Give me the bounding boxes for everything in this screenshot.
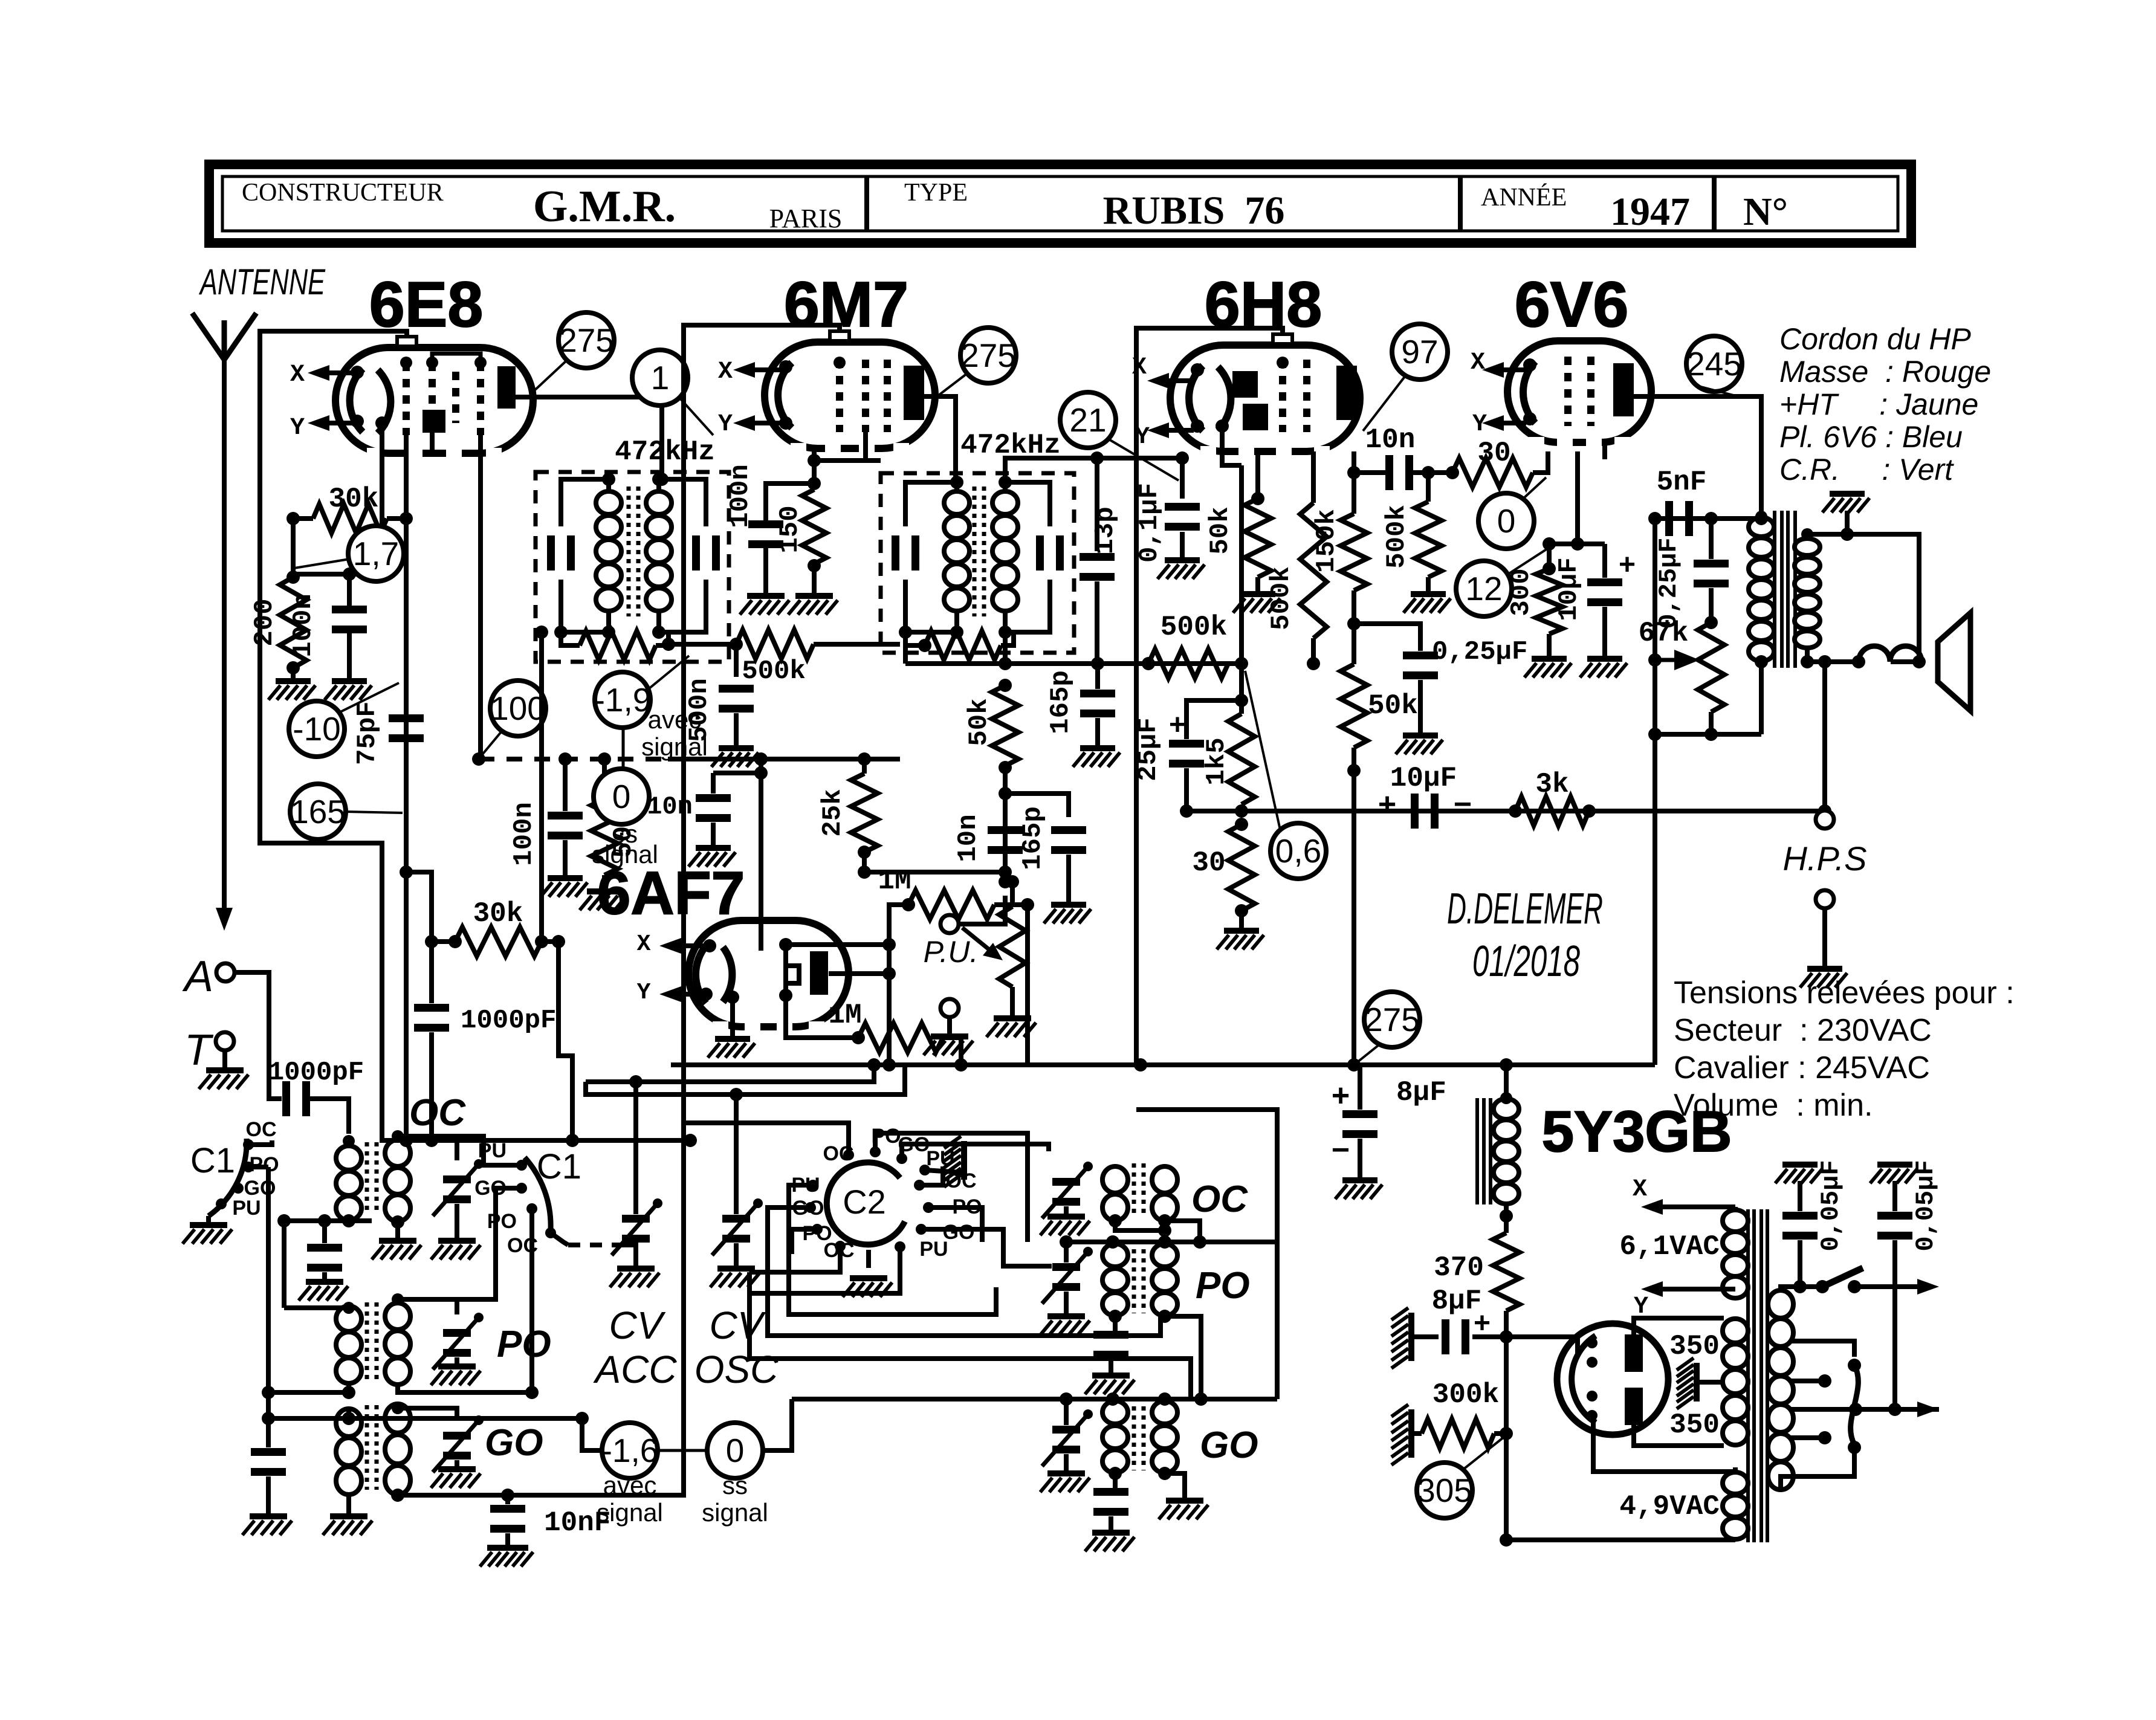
6M7 grid1 dot xyxy=(834,357,846,369)
junction osc grid xyxy=(425,935,438,948)
svg-text:PARIS: PARIS xyxy=(769,204,843,233)
ant PO core xyxy=(365,1302,369,1381)
resistor 300k xyxy=(1422,1419,1494,1448)
6M7 pin dot a xyxy=(779,360,792,373)
wire -1,6 to 0 xyxy=(657,1449,708,1452)
svg-text:5Y3GB: 5Y3GB xyxy=(1542,1099,1732,1164)
6E8 Y arrow xyxy=(317,421,358,425)
wire 10nF gnd xyxy=(505,1533,510,1545)
svg-text:X: X xyxy=(290,361,305,389)
wire 6E8 X to cathode xyxy=(357,372,358,373)
junction bus A / IF2 xyxy=(999,657,1012,670)
svg-text:300: 300 xyxy=(1506,568,1536,616)
junction 500k-r xyxy=(1422,466,1435,479)
junction 6AF7 plate xyxy=(882,967,896,980)
C1R contact GO xyxy=(516,1183,527,1194)
mains switch blade xyxy=(1822,1268,1863,1287)
junction B+ OPT xyxy=(1648,728,1662,741)
capacitor 100n (6E8 cathode) xyxy=(332,606,367,613)
junction 10nF xyxy=(501,1489,514,1502)
C1L contact GO xyxy=(233,1183,244,1194)
wire 0,25uF top xyxy=(1354,624,1420,651)
C2 ground inner xyxy=(866,1250,871,1268)
svg-text:PO: PO xyxy=(487,1210,517,1233)
6AF7 X arrow xyxy=(669,943,707,948)
junction OC bus a xyxy=(277,1214,291,1227)
svg-text:Secteur : 230VAC: Secteur : 230VAC xyxy=(1674,1013,1932,1048)
wire 6M7 plate to IF2 xyxy=(924,396,956,482)
junction 1M-l rail xyxy=(954,1058,968,1072)
junction 1000pF OC line xyxy=(425,1134,438,1147)
voltage circle 305 xyxy=(1417,1463,1472,1518)
junction 25k bus xyxy=(858,752,871,766)
svg-text:97: 97 xyxy=(1401,333,1438,370)
svg-text:signal: signal xyxy=(641,732,708,761)
wire PO trim gnd xyxy=(455,1357,459,1363)
wire 200 top xyxy=(291,519,296,577)
C1 right wafer arc xyxy=(525,1157,551,1229)
title divider No xyxy=(1712,176,1717,231)
wire osc PO trim top xyxy=(1064,1242,1069,1263)
junction gnd tap xyxy=(1840,528,1854,541)
svg-text:-1,6: -1,6 xyxy=(601,1432,659,1469)
wire primary bottom xyxy=(1781,1447,1854,1490)
svg-text:21: 21 xyxy=(1069,401,1106,439)
svg-text:500k: 500k xyxy=(1266,566,1297,630)
svg-text:+HT : Jaune: +HT : Jaune xyxy=(1779,387,1978,421)
svg-text:3k: 3k xyxy=(1535,769,1568,800)
tube 6M7 envelope xyxy=(765,342,935,448)
wire 5Y3 plate top xyxy=(1634,1318,1724,1334)
voltage circle 1,7 (cathode) xyxy=(348,526,404,581)
junction CV OSC line xyxy=(730,1088,743,1101)
wire 0,25uF-o bottom xyxy=(1709,588,1714,622)
junction 50k det top xyxy=(999,679,1012,692)
wire A to 1000pF xyxy=(235,972,282,1099)
capacitor 75pF xyxy=(389,714,424,722)
6E8 X arrow xyxy=(317,370,358,375)
wire cath node 6V6 xyxy=(1549,542,1605,546)
wire 300 gnd xyxy=(1547,634,1552,656)
junction OC sec top xyxy=(392,1130,404,1142)
wire 50k-6h8 gnd xyxy=(1255,577,1260,591)
6H8 pin dot b xyxy=(1191,419,1204,433)
wire bus A (detector) xyxy=(905,661,1241,666)
capacitor 100n (6M7 cathode) xyxy=(748,520,783,528)
6H8 plate xyxy=(1336,366,1357,420)
junction 50k AVC top xyxy=(598,792,611,806)
selector contact 3 xyxy=(1849,1403,1862,1416)
wire PO prim bottom xyxy=(268,1384,349,1392)
ground OPT secondary xyxy=(1830,491,1865,497)
antenna down lead wire xyxy=(222,360,227,921)
wire C2 route PO-left xyxy=(792,1229,817,1254)
junction 500k busA right xyxy=(1235,657,1248,670)
svg-text:D.DELEMER: D.DELEMER xyxy=(1447,885,1603,933)
terminal HPS 2 xyxy=(1816,890,1834,908)
svg-text:0: 0 xyxy=(612,778,631,815)
junction B+ 67k xyxy=(1648,653,1662,667)
ground 500n xyxy=(719,745,754,751)
junction bus A / 165p xyxy=(1091,657,1104,670)
wire osc GO bus xyxy=(792,1397,1277,1402)
ground osc GO trimmer xyxy=(1047,1470,1085,1476)
6M7 top cap xyxy=(830,331,849,341)
wire C1R PO down xyxy=(529,1212,534,1392)
ground CV ACC xyxy=(617,1266,655,1272)
svg-text:12: 12 xyxy=(1465,570,1502,607)
svg-text:275: 275 xyxy=(960,337,1016,374)
wire 13p bottom xyxy=(1095,581,1099,664)
tube 6AF7 envelope xyxy=(688,920,849,1027)
svg-text:0,05µF: 0,05µF xyxy=(1816,1160,1845,1251)
wire avc to 500k xyxy=(668,642,736,647)
junction 1k5/25uF xyxy=(1235,694,1248,707)
svg-text:OSC: OSC xyxy=(694,1348,779,1391)
6E8 pin dot b xyxy=(351,415,364,428)
6E8 grid2 top dot xyxy=(426,357,438,369)
wire 100n AVC bottom xyxy=(563,840,568,875)
osc OC core xyxy=(1132,1163,1136,1218)
svg-text:Y: Y xyxy=(1472,411,1487,438)
wire IF1 sec top to cap xyxy=(659,479,706,526)
leader 21 xyxy=(1108,439,1179,480)
wire 6E8 osc grid down xyxy=(404,435,409,1140)
wire OC prim bottom bus xyxy=(284,1218,372,1223)
wire 6AF7 plate node down xyxy=(887,945,892,1065)
junction CV ACC line xyxy=(629,1075,643,1088)
coil ant GO primary xyxy=(336,1409,361,1437)
wire 370 bottom xyxy=(1504,1311,1509,1337)
junction 30k right xyxy=(400,512,413,525)
junction 50k 6h8 xyxy=(1251,492,1264,505)
wire IF2 box to bus xyxy=(903,632,908,664)
IF transformer 2 dashed box xyxy=(881,473,1074,653)
svg-text:6V6: 6V6 xyxy=(1515,269,1629,340)
junction B+ top xyxy=(1648,512,1662,525)
svg-text:Pl. 6V6 : Bleu: Pl. 6V6 : Bleu xyxy=(1779,420,1963,454)
svg-text:A: A xyxy=(182,952,213,1001)
junction PO prim top xyxy=(343,1302,355,1314)
ground osc GO padder xyxy=(1092,1530,1130,1536)
svg-text:+: + xyxy=(1619,549,1636,581)
wire left cap gnd xyxy=(266,1476,271,1513)
junction 30k-osc right xyxy=(535,935,548,948)
wire choke top xyxy=(1504,1065,1509,1098)
junction OC prim bottom xyxy=(342,1214,355,1227)
trimmer osc OC xyxy=(1052,1178,1080,1186)
junction GO bus right xyxy=(575,1412,589,1425)
wire 500k-6h8 top xyxy=(1311,451,1316,503)
wire 6E8 grid3 AVC down xyxy=(478,435,483,759)
wire 6E8 grid cap loop xyxy=(260,331,544,1140)
junction AVC left xyxy=(472,752,485,766)
svg-text:25µF: 25µF xyxy=(1133,717,1164,781)
wire C1L OC link xyxy=(248,1140,272,1145)
wire HPS gnd stub xyxy=(1822,908,1827,966)
svg-text:0,6: 0,6 xyxy=(1275,832,1321,870)
wire 6M7 cathode xyxy=(812,448,817,490)
6E8 pin dot a xyxy=(351,366,364,379)
6E8 injection square xyxy=(422,410,445,433)
svg-text:X: X xyxy=(718,358,733,386)
6E8 grid 2 xyxy=(429,363,436,411)
junction 370/8uF xyxy=(1500,1330,1513,1343)
wire OC padder top xyxy=(322,1221,327,1243)
svg-text:10n: 10n xyxy=(1365,424,1416,456)
wire B+ to OPT bottom xyxy=(1655,732,1761,737)
volume pot wiper arrow xyxy=(962,928,991,951)
wire oscGO right gnd xyxy=(1165,1473,1185,1498)
junction tone/pot xyxy=(1704,616,1718,629)
coil osc GO right xyxy=(1152,1401,1177,1424)
selector contact 5 xyxy=(1848,1441,1861,1454)
5Y3GB anode strap xyxy=(1633,1372,1634,1388)
wire GO top bus xyxy=(268,1416,582,1421)
wire 4,9VAC bottom to B+ node xyxy=(1506,1537,1735,1542)
junction sec bottom xyxy=(1801,655,1814,668)
C1L contact PO xyxy=(243,1162,254,1172)
svg-text:10µF: 10µF xyxy=(1390,763,1457,794)
wire IF1 prim top to cap xyxy=(561,479,609,526)
junction 200 top xyxy=(286,571,300,584)
wire OC trim gnd xyxy=(455,1204,459,1238)
6M7 grid 1 xyxy=(836,360,843,432)
wire 50k AVC bottom xyxy=(602,875,607,888)
6V6 grid 2 xyxy=(1587,357,1594,426)
svg-text:OC: OC xyxy=(409,1092,466,1134)
wire C2 route long xyxy=(749,1272,1191,1399)
junction oscGO bus r xyxy=(1158,1392,1171,1406)
wire 5Y3 filament feed xyxy=(1506,1337,1578,1354)
junction OPT prim bottom xyxy=(1755,655,1768,668)
junction 10n-ss xyxy=(754,766,768,780)
junction osc grid OC line xyxy=(400,1134,413,1147)
wire 100n top xyxy=(347,574,352,606)
svg-text:350: 350 xyxy=(1669,1331,1720,1362)
svg-text:CV: CV xyxy=(710,1304,766,1347)
IF1 core xyxy=(627,487,631,616)
6E8 grid4 top dot xyxy=(474,357,487,369)
wire 5nF line xyxy=(1655,516,1761,521)
junction OC sec bottom xyxy=(391,1215,404,1229)
svg-text:G.M.R.: G.M.R. xyxy=(533,182,676,231)
svg-text:275: 275 xyxy=(558,322,614,359)
wire osc OC trim gnd xyxy=(1064,1206,1069,1214)
wire 4,9VAC top to 5Y3 filament xyxy=(1724,1469,1735,1474)
wire GO trim gnd xyxy=(455,1460,459,1466)
junction PO sec top xyxy=(392,1293,404,1305)
ground 50k AVC xyxy=(587,888,622,894)
svg-text:X: X xyxy=(1471,349,1485,377)
5Y3 fil dot a xyxy=(1587,1337,1598,1348)
svg-text:1000pF: 1000pF xyxy=(461,1006,556,1036)
junction PO bus xyxy=(262,1386,275,1399)
tube 6V6 envelope xyxy=(1507,341,1651,442)
resistor IF1 damping xyxy=(580,631,656,660)
ground 10uF cath xyxy=(1587,656,1622,662)
coil ant OC primary xyxy=(336,1146,361,1170)
junction cap2 bottom xyxy=(1888,1403,1902,1416)
6M7 cathode arcs xyxy=(778,363,792,428)
svg-text:245: 245 xyxy=(1686,345,1742,383)
6AF7 cathode dot xyxy=(726,991,739,1004)
svg-text:500k: 500k xyxy=(1382,505,1412,569)
wire 10n-ss branch xyxy=(713,771,761,775)
junction choke top xyxy=(1500,1092,1512,1104)
ground 300 xyxy=(1532,656,1567,662)
trimmer osc GO xyxy=(1052,1426,1080,1434)
junction oscPO l bottom xyxy=(1109,1310,1122,1323)
resistor 500k (bus A) xyxy=(1148,649,1228,678)
C1L contact PU xyxy=(216,1198,227,1209)
capacitor 0,05uF (2) xyxy=(1877,1212,1912,1220)
ground T xyxy=(206,1067,244,1073)
junction 50k AVC xyxy=(598,752,611,766)
junction oscGO bus rr xyxy=(1194,1392,1208,1406)
wire oscPO right down xyxy=(1165,1316,1201,1399)
wire IF1 damp left xyxy=(561,632,580,645)
6H8 cathode arcs xyxy=(1189,366,1203,431)
trimmer osc PO xyxy=(1052,1263,1080,1271)
leader 275 6M7 xyxy=(934,373,967,399)
voltage circle 275 (6E8 plate) xyxy=(558,312,614,368)
resistor 300 (6V6 cathode) xyxy=(1536,569,1562,634)
wire C2 route PU-hatch xyxy=(925,1170,962,1172)
wire cap2 up xyxy=(1892,1181,1897,1211)
svg-text:+: + xyxy=(1332,1078,1350,1113)
5Y3GB anode 1 xyxy=(1625,1334,1643,1372)
coil IF1 secondary xyxy=(646,491,672,514)
ground ant left cap xyxy=(250,1513,287,1519)
wire B+ vertical xyxy=(1653,519,1657,1065)
ground 100n 6M7 xyxy=(747,593,785,599)
coil osc PO left xyxy=(1102,1244,1128,1267)
junction switch out xyxy=(1848,1280,1861,1293)
junction rail Y-line xyxy=(1134,1058,1147,1072)
6E8 grid 4 xyxy=(477,363,484,435)
junction 500k busA left xyxy=(1142,657,1155,670)
wire OC to CVACC dashed xyxy=(568,1243,614,1247)
voltage circle 275 (B+) xyxy=(1364,992,1420,1047)
C2 contacts and labels xyxy=(870,1146,881,1157)
svg-text:PO: PO xyxy=(1196,1265,1250,1307)
wire PS B+ down xyxy=(1504,1337,1509,1540)
6H8 grid top dot xyxy=(1277,357,1289,369)
junction IF2 left bottom xyxy=(899,626,912,639)
junction oscPO bus m xyxy=(1106,1235,1119,1249)
svg-text:GO: GO xyxy=(485,1422,543,1464)
ground OC secondary xyxy=(379,1238,416,1244)
resistor 3k xyxy=(1515,797,1589,826)
svg-text:TYPE: TYPE xyxy=(904,179,968,207)
svg-text:100n: 100n xyxy=(509,802,539,866)
resistor 1M (lower) xyxy=(858,1023,943,1052)
junction PO sec bottom xyxy=(525,1386,539,1399)
svg-text:H.P.S: H.P.S xyxy=(1782,839,1866,878)
leader 245 xyxy=(1701,387,1734,395)
svg-text:N°: N° xyxy=(1743,190,1788,234)
ground P.U. xyxy=(931,1033,968,1039)
wire 6V6 plate to OPT xyxy=(1634,396,1761,517)
wire cvosc gnd xyxy=(734,1243,739,1266)
voltage circle 0 (6V6 grid) xyxy=(1478,493,1534,549)
junction 25k b xyxy=(858,865,871,879)
junction 13p top xyxy=(1090,451,1104,465)
voltage circle 97 xyxy=(1392,324,1448,380)
svg-text:370: 370 xyxy=(1434,1252,1484,1284)
wire 1M-u down xyxy=(1025,905,1030,1065)
voltage circle 100 xyxy=(490,681,546,736)
junction oscOC l bottom xyxy=(1109,1214,1122,1227)
PT X arrow xyxy=(1651,1204,1735,1209)
svg-text:0,25µF: 0,25µF xyxy=(1654,537,1683,629)
IF2 core xyxy=(973,487,977,616)
ground 50k 6h8 xyxy=(1240,591,1275,597)
wire IF2 sec bottom to bus xyxy=(1003,632,1008,664)
junction 1M-u xyxy=(1021,898,1034,911)
resistor 370 xyxy=(1493,1233,1520,1311)
wire 6E8 cathode down xyxy=(380,427,384,574)
capacitor 10n (ss) xyxy=(696,794,731,802)
svg-text:OC: OC xyxy=(1191,1178,1248,1220)
svg-text:X: X xyxy=(1633,1176,1647,1203)
leader 1,7 xyxy=(294,559,349,568)
wire AVC bus dashed xyxy=(479,757,668,761)
ground 6AF7 cathode xyxy=(715,1036,750,1042)
junction IF1 sec top xyxy=(652,473,665,486)
6E8 internal screen strap xyxy=(432,354,481,363)
svg-text:50k: 50k xyxy=(1368,690,1418,722)
wire 6AF7 screen to 1M xyxy=(786,998,858,1038)
svg-text:PU: PU xyxy=(232,1197,261,1220)
terminal P.U. top xyxy=(940,915,959,933)
wire 30k-osc left xyxy=(432,939,455,944)
junction 25k detector xyxy=(999,865,1012,879)
5Y3 fil dot c xyxy=(1587,1391,1598,1402)
ground 165p upper xyxy=(1080,745,1115,751)
ground CV OSC xyxy=(717,1266,755,1272)
ground volume pot xyxy=(994,1015,1031,1021)
6V6 cathode arcs xyxy=(1523,361,1535,423)
svg-text:RUBIS 76: RUBIS 76 xyxy=(1103,189,1285,233)
junction 30k-osc left xyxy=(448,935,462,948)
resistor 50k (plate load) xyxy=(1341,664,1367,748)
svg-text:200: 200 xyxy=(250,598,280,646)
capacitor IF1 primary tuning xyxy=(547,535,555,571)
junction 1M-l left xyxy=(852,1031,865,1044)
wire osc PO trim gnd xyxy=(1064,1292,1069,1313)
ground 100n xyxy=(332,678,367,684)
wire 25k top xyxy=(862,759,867,774)
6H8 X arrow xyxy=(1157,378,1194,383)
junction 6M7 cath b xyxy=(808,477,821,490)
leader 0 6V6 xyxy=(1523,477,1546,499)
wire 300 top xyxy=(1547,544,1552,569)
voltage circle 1 xyxy=(632,350,688,406)
svg-text:50k: 50k xyxy=(1205,506,1235,554)
junction IF1 left bottom xyxy=(554,626,568,639)
svg-text:C2: C2 xyxy=(843,1183,886,1221)
capacitor 0,25uF (coupling) xyxy=(1403,651,1438,659)
svg-text:+: + xyxy=(1378,787,1396,822)
wire -1,6 left xyxy=(582,1418,603,1450)
ground 30 xyxy=(1224,928,1259,934)
ground 100n AVC xyxy=(548,875,583,881)
wire parallel line upper xyxy=(586,1065,874,1082)
leader 0,6 xyxy=(1245,671,1280,830)
terminal A xyxy=(216,963,235,981)
